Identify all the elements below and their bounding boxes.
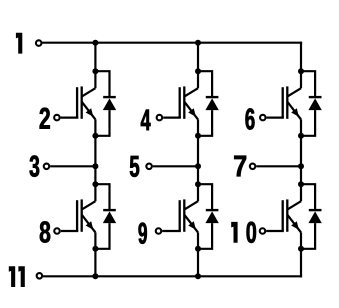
terminal 11 label xyxy=(9,266,25,287)
terminal 9 label xyxy=(139,223,147,244)
wire leg3 emitter lower xyxy=(300,232,302,277)
node emitter Q6 xyxy=(298,246,304,252)
wire leg3 collector upper xyxy=(300,42,302,89)
transistor Q5 (IGBT) xyxy=(282,86,301,119)
terminal 2 xyxy=(54,115,60,121)
terminal 3 label xyxy=(30,155,40,176)
node collector Q6 xyxy=(298,181,304,187)
wire top bus P xyxy=(41,42,302,44)
wire leg1 collector upper xyxy=(94,43,96,88)
terminal 10 label xyxy=(231,222,256,243)
wire leg2 emitter lower xyxy=(197,232,199,276)
transistor Q2 (IGBT) xyxy=(76,199,95,232)
wire gate Q3 xyxy=(163,116,181,118)
node emitter Q1 xyxy=(92,133,98,139)
junction dot bottom bus leg1 xyxy=(92,273,98,279)
node collector Q1 xyxy=(92,68,98,74)
wire gate Q5 xyxy=(267,116,284,118)
transistor Q4 (IGBT) xyxy=(179,199,198,232)
junction dot bottom bus leg2 xyxy=(195,273,201,279)
terminal 5 xyxy=(146,164,152,170)
terminal 1 xyxy=(36,40,42,46)
terminal 1 label xyxy=(16,33,22,54)
wire gate Q4 xyxy=(162,230,181,232)
terminal 11 xyxy=(37,273,43,279)
wire leg2 collector upper xyxy=(197,43,199,88)
terminal 7 label xyxy=(234,156,246,177)
terminal 2 label xyxy=(40,108,50,129)
transistor Q1 (IGBT) xyxy=(76,86,95,119)
wire bottom bus N xyxy=(42,275,302,277)
wire phase output 3 xyxy=(50,165,95,167)
wire phase output 5 xyxy=(153,165,198,167)
terminal 6 label xyxy=(246,108,255,129)
diode D2 (freewheeling) xyxy=(95,184,116,249)
wire leg1 phase middle xyxy=(94,119,96,201)
wire leg1 emitter lower xyxy=(94,232,96,276)
node emitter Q5 xyxy=(298,133,304,139)
junction dot top bus leg1 xyxy=(92,40,98,46)
terminal 7 xyxy=(250,164,256,170)
transistor Q3 (IGBT) xyxy=(179,86,198,119)
node collector Q3 xyxy=(195,68,201,74)
junction dot phase leg1 xyxy=(92,163,98,169)
node collector Q2 xyxy=(92,181,98,187)
diode D3 (freewheeling) xyxy=(198,71,219,136)
node collector Q4 xyxy=(195,181,201,187)
wire gate Q6 xyxy=(266,230,284,232)
diode D6 (freewheeling) xyxy=(301,184,322,249)
diode D5 (freewheeling) xyxy=(301,71,322,136)
wire gate Q1 xyxy=(61,116,79,118)
terminal 6 xyxy=(260,115,266,121)
terminal 10 xyxy=(260,228,266,234)
junction dot phase leg3 xyxy=(298,163,304,169)
terminal 4 xyxy=(157,115,163,121)
wire phase output 7 xyxy=(256,165,301,167)
terminal 4 label xyxy=(141,110,151,131)
wire leg2 phase middle xyxy=(197,119,199,201)
terminal 8 xyxy=(54,228,60,234)
junction dot top bus leg2 xyxy=(195,40,201,46)
terminal 5 label xyxy=(130,156,139,177)
terminal 8 label xyxy=(40,221,50,242)
node collector Q5 xyxy=(298,68,304,74)
transistor Q6 (IGBT) xyxy=(282,199,301,232)
wire gate Q2 xyxy=(61,230,79,232)
terminal 3 xyxy=(44,164,50,170)
terminal 9 xyxy=(156,228,162,234)
diode D1 (freewheeling) xyxy=(95,71,116,136)
wire leg3 phase middle xyxy=(300,119,302,201)
node emitter Q2 xyxy=(92,246,98,252)
node emitter Q4 xyxy=(195,246,201,252)
diode D4 (freewheeling) xyxy=(198,184,219,249)
node emitter Q3 xyxy=(195,133,201,139)
junction dot phase leg2 xyxy=(195,163,201,169)
